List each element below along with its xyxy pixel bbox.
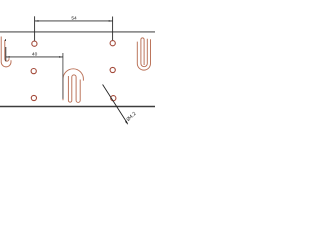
svg-text:40: 40 xyxy=(32,52,38,58)
dimension 40: left extension line xyxy=(5,47,7,61)
tick at hairpin S1 leg top xyxy=(5,39,7,41)
hairpin slot S2 (middle, opens down) xyxy=(63,69,83,103)
dimension 54: right extension line xyxy=(112,17,114,41)
dimension 40: right extension line (overlaps hairpin leg) xyxy=(62,53,64,99)
dimension 54: right arrowhead xyxy=(109,20,113,22)
dimension 54: left extension line xyxy=(34,16,36,40)
dimension 54: dimension line xyxy=(35,20,113,22)
hairpin slot S1 (left edge, opens up) xyxy=(1,37,11,67)
leader line for hole diameter xyxy=(103,85,128,124)
leader arrowhead (points down-right) xyxy=(125,121,128,125)
hole H4 (top right) xyxy=(110,41,115,46)
plate top edge line xyxy=(0,31,155,33)
hole H1 (top left) xyxy=(32,41,37,46)
hole H6 (bottom right, referenced by leader) xyxy=(111,96,116,101)
hole H3 (bottom left) xyxy=(31,95,36,100)
dimension 40: left arrowhead xyxy=(6,56,10,58)
hole H2 (middle left) xyxy=(31,69,36,74)
plate bottom edge line xyxy=(0,106,155,108)
svg-text:54: 54 xyxy=(71,16,77,22)
hole H5 (middle right) xyxy=(110,67,115,72)
dimension 54: left arrowhead xyxy=(35,20,39,22)
dimension 40: dimension line xyxy=(6,56,63,58)
hairpin slot S3 (right, opens up) xyxy=(137,38,150,70)
dimension 40: right arrowhead xyxy=(59,56,63,58)
